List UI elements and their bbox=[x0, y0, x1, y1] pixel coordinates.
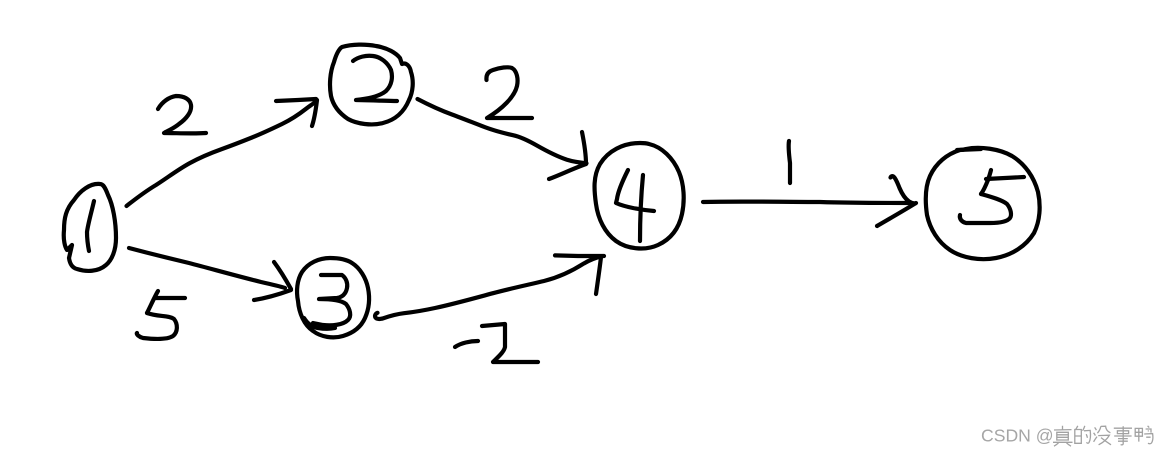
svg-text:CSDN @: CSDN @ bbox=[981, 426, 1054, 446]
